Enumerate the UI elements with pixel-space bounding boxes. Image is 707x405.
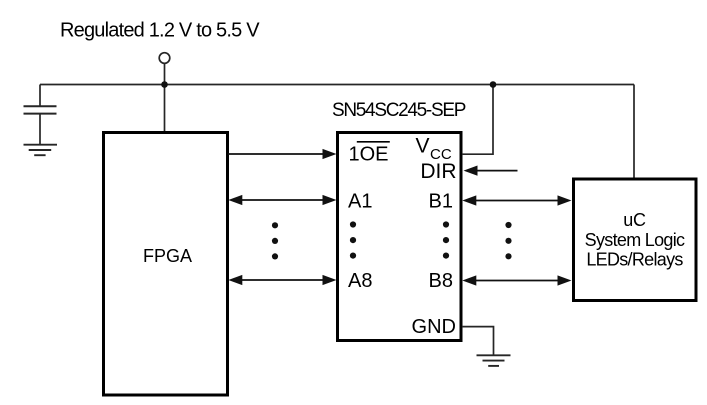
uC / System Logic / LEDs-Relays box bbox=[574, 179, 697, 301]
svg-text:LEDs/Relays: LEDs/Relays bbox=[586, 250, 683, 270]
ellipsis dots inside IC, B side bbox=[443, 221, 449, 258]
wire: top supply rail bbox=[40, 84, 634, 86]
svg-text:System Logic: System Logic bbox=[585, 230, 685, 250]
power terminal circle bbox=[159, 53, 170, 64]
svg-text:uC: uC bbox=[623, 210, 646, 230]
svg-text:B1: B1 bbox=[429, 191, 453, 213]
pin label 1OE (active low) bbox=[349, 142, 390, 166]
ellipsis dots between B pins and uC bbox=[505, 222, 511, 260]
svg-text:A1: A1 bbox=[348, 191, 372, 213]
arrow: B8-uC bidirectional bbox=[462, 275, 571, 285]
pin label B8 bbox=[429, 270, 453, 292]
svg-text:Regulated 1.2 V to 5.5 V: Regulated 1.2 V to 5.5 V bbox=[60, 19, 260, 41]
wire: GND pin to ground bbox=[462, 327, 494, 355]
label: SN54SC245-SEP bbox=[332, 100, 466, 121]
pin label GND bbox=[412, 316, 456, 338]
capacitor C1 bbox=[24, 106, 57, 113]
svg-text:1OE: 1OE bbox=[349, 144, 389, 166]
wire: capacitor top stem bbox=[39, 85, 41, 106]
ellipsis dots inside IC, A side bbox=[350, 221, 356, 258]
FPGA box bbox=[104, 133, 228, 396]
IC U1: SN54SC245-SEP box bbox=[338, 133, 462, 341]
svg-text:FPGA: FPGA bbox=[143, 246, 192, 266]
wire: capacitor bottom stem bbox=[39, 115, 41, 145]
arrow: FPGA-A1 bidirectional bbox=[228, 195, 336, 205]
svg-text:SN54SC245-SEP: SN54SC245-SEP bbox=[332, 100, 466, 121]
pin label A1 bbox=[348, 191, 372, 213]
svg-text:GND: GND bbox=[412, 316, 456, 338]
svg-text:V: V bbox=[416, 135, 430, 158]
ellipsis dots between FPGA and A pins bbox=[272, 222, 278, 259]
wire: VCC to rail branch bbox=[462, 85, 493, 155]
wire: rail down to uC box bbox=[633, 85, 635, 179]
arrow: DIR input bbox=[464, 166, 518, 176]
arrow: FPGA-A8 bidirectional bbox=[228, 275, 336, 285]
label: Regulated 1.2 V to 5.5 V bbox=[60, 19, 260, 41]
junction node at rail/VCC branch bbox=[490, 81, 497, 88]
ground (right, below GND pin) bbox=[477, 355, 511, 366]
svg-text:A8: A8 bbox=[348, 270, 372, 292]
arrow: B1-uC bidirectional bbox=[462, 195, 571, 205]
pin label A8 bbox=[348, 270, 372, 292]
ground (left, under capacitor) bbox=[24, 145, 58, 156]
arrow: FPGA to 1OE bbox=[228, 149, 337, 159]
pin label DIR bbox=[420, 160, 456, 183]
pin label VCC bbox=[416, 135, 452, 163]
pin label B1 bbox=[429, 191, 453, 213]
svg-text:B8: B8 bbox=[429, 270, 453, 292]
wire: terminal down to FPGA bbox=[164, 64, 166, 132]
junction node at rail/FPGA stem bbox=[161, 81, 168, 88]
svg-text:DIR: DIR bbox=[420, 160, 456, 183]
